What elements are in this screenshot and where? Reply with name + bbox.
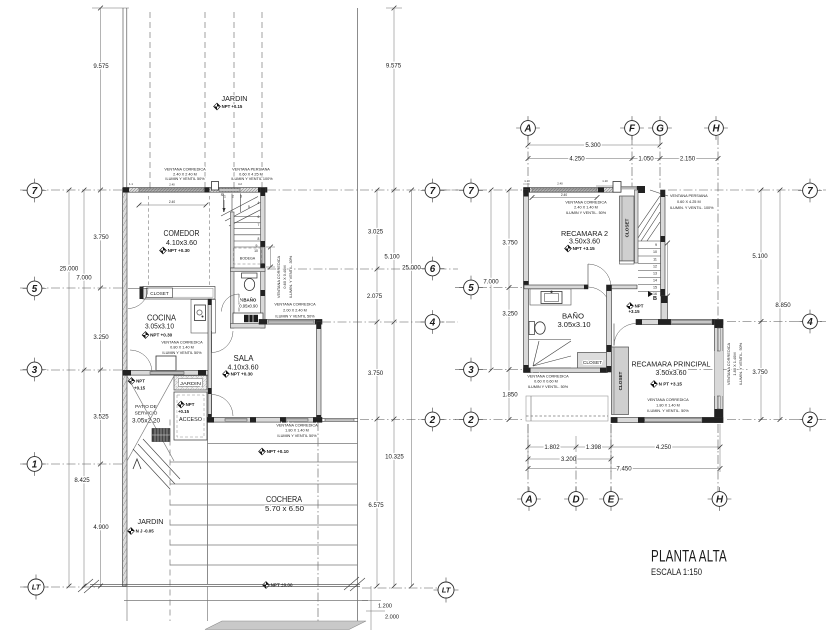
svg-text:3: 3 bbox=[240, 195, 242, 199]
svg-text:4.2: 4.2 bbox=[238, 182, 242, 186]
bottom chain 3 bbox=[528, 468, 720, 470]
sala bottom wall bbox=[207, 418, 322, 423]
svg-text:SALA: SALA bbox=[234, 353, 254, 363]
svg-text:1.80 X 1.40 M: 1.80 X 1.40 M bbox=[285, 429, 309, 433]
svg-text:VENTANA CORREDICA: VENTANA CORREDICA bbox=[276, 255, 281, 298]
bath shower bbox=[529, 339, 571, 341]
svg-text:VENTANA CORREDICA: VENTANA CORREDICA bbox=[565, 201, 607, 205]
svg-text:4.10x3.60: 4.10x3.60 bbox=[228, 363, 259, 372]
comedor dashed edge left bbox=[148, 196, 150, 285]
dashed line x150 bbox=[149, 12, 151, 188]
stair right wall fp bbox=[661, 190, 666, 296]
bottom chain 1 bbox=[528, 446, 720, 448]
grid bubble 2 rp bbox=[459, 419, 483, 421]
rp top wall bbox=[524, 188, 614, 193]
grid bubble LT left bbox=[24, 586, 49, 588]
sala right wall bbox=[317, 322, 322, 422]
cochera divider bbox=[207, 422, 209, 584]
svg-text:NPT +0.30: NPT +0.30 bbox=[231, 372, 254, 377]
comedor dashed edge right bbox=[209, 196, 211, 285]
grid bubble 6 bbox=[421, 268, 445, 270]
svg-text:+0.15: +0.15 bbox=[134, 386, 146, 391]
svg-text:A: A bbox=[524, 495, 532, 506]
svg-text:1.1: 1.1 bbox=[129, 182, 133, 186]
svg-text:1.200: 1.200 bbox=[378, 604, 392, 610]
kitchen door arc bbox=[128, 289, 148, 309]
svg-text:VENTANA CORREDICA: VENTANA CORREDICA bbox=[164, 168, 206, 172]
rp bottom wall bbox=[611, 418, 723, 423]
svg-text:JARDIN: JARDIN bbox=[138, 517, 164, 526]
svg-text:D: D bbox=[572, 495, 579, 506]
svg-text:2.40: 2.40 bbox=[557, 182, 563, 186]
recamara2 bottom wall bbox=[524, 285, 588, 289]
bath closet bbox=[578, 353, 608, 369]
grid row LT bbox=[20, 586, 95, 588]
grid bubble 5 left bbox=[23, 288, 47, 290]
dim 1.200 bbox=[370, 586, 372, 630]
rp top wall step bbox=[613, 182, 621, 193]
svg-text:CLOSET: CLOSET bbox=[583, 360, 602, 366]
top chain 5.300 bbox=[528, 144, 660, 146]
svg-text:ILUMIN. Y VENTIL. 50%: ILUMIN. Y VENTIL. 50% bbox=[738, 342, 743, 385]
svg-text:VENTANA PERSIANA: VENTANA PERSIANA bbox=[670, 194, 708, 198]
persiana leader bbox=[650, 190, 668, 196]
boundary line right bbox=[357, 8, 359, 586]
patio gate mark bbox=[133, 459, 141, 469]
svg-text:NPT +0.15: NPT +0.15 bbox=[222, 104, 243, 109]
grid row 5 right plan bbox=[455, 287, 464, 289]
grid row 1 left bbox=[20, 463, 122, 465]
closet comedor bbox=[143, 287, 215, 300]
npt cochera 0 bbox=[263, 582, 270, 589]
grid col G bbox=[659, 136, 661, 188]
svg-text:9: 9 bbox=[655, 243, 657, 247]
recamara door arc bbox=[614, 324, 636, 346]
grid bubble 2 mid bbox=[421, 419, 445, 421]
svg-text:25.000: 25.000 bbox=[402, 265, 421, 272]
chain 5.100/3.750 rp-right bbox=[760, 190, 762, 420]
svg-text:RECAMARA PRINCIPAL: RECAMARA PRINCIPAL bbox=[632, 360, 711, 369]
svg-text:7: 7 bbox=[258, 223, 260, 227]
stair window dim bbox=[270, 247, 272, 267]
grid col D bbox=[575, 455, 577, 492]
svg-text:N J -0.05: N J -0.05 bbox=[136, 529, 155, 534]
planter jardin strip bbox=[174, 376, 207, 391]
grid bubble A top bbox=[516, 127, 540, 129]
svg-text:PATIO DE: PATIO DE bbox=[135, 404, 157, 410]
half bath door arc bbox=[222, 294, 240, 312]
window persiana strip bbox=[219, 189, 240, 191]
svg-text:NPT: NPT bbox=[186, 402, 195, 407]
svg-text:N PT +3.15: N PT +3.15 bbox=[659, 382, 683, 387]
grid bubble LT right bbox=[434, 589, 459, 591]
svg-text:3.05x3.10: 3.05x3.10 bbox=[558, 322, 591, 329]
chain rows rp-left bbox=[508, 190, 510, 420]
svg-text:8: 8 bbox=[258, 237, 260, 241]
svg-text:2.40: 2.40 bbox=[169, 200, 175, 204]
grid row 2 left bbox=[360, 419, 456, 421]
svg-text:3.05x2.20: 3.05x2.20 bbox=[132, 418, 161, 425]
grid bubble 3 left bbox=[23, 369, 47, 371]
svg-text:NPT +3.15: NPT +3.15 bbox=[573, 246, 596, 251]
sidewalk line bbox=[124, 600, 368, 602]
svg-text:½BAÑO: ½BAÑO bbox=[240, 298, 257, 303]
svg-text:14: 14 bbox=[653, 279, 657, 283]
top wall bbox=[123, 188, 267, 193]
svg-text:4.250: 4.250 bbox=[656, 444, 672, 451]
svg-text:E: E bbox=[608, 495, 615, 506]
svg-text:1: 1 bbox=[32, 460, 37, 471]
half bath walls bbox=[231, 268, 235, 328]
svg-text:0.60 X 0.40M: 0.60 X 0.40M bbox=[282, 265, 287, 288]
svg-text:0.95x0.90: 0.95x0.90 bbox=[239, 304, 258, 309]
svg-text:2.40 X 1.40 M: 2.40 X 1.40 M bbox=[574, 206, 598, 210]
svg-text:JARDIN: JARDIN bbox=[222, 94, 248, 103]
svg-text:3: 3 bbox=[32, 365, 38, 376]
grid bubble 4 mid bbox=[421, 321, 445, 323]
bath door arc bbox=[588, 287, 610, 309]
svg-text:3.200: 3.200 bbox=[561, 456, 577, 463]
sala left wall bbox=[208, 299, 212, 422]
svg-text:VENTANA CORREDICA: VENTANA CORREDICA bbox=[527, 375, 569, 379]
recamara2 window dim bbox=[532, 197, 597, 199]
ramp lines bbox=[133, 449, 170, 489]
svg-text:CLOSET: CLOSET bbox=[625, 218, 630, 237]
svg-text:BODEGA: BODEGA bbox=[240, 257, 256, 261]
svg-text:3.250: 3.250 bbox=[502, 311, 518, 318]
central wall bbox=[607, 285, 612, 372]
sala door arc comedor bbox=[212, 331, 234, 353]
svg-text:6: 6 bbox=[430, 264, 436, 275]
svg-text:2.00 X 2.40 M: 2.00 X 2.40 M bbox=[283, 309, 307, 313]
svg-text:VENTANA CORREDICA: VENTANA CORREDICA bbox=[647, 398, 689, 402]
bath bottom wall bbox=[524, 368, 608, 372]
svg-text:13: 13 bbox=[653, 272, 657, 276]
svg-text:1.850: 1.850 bbox=[502, 392, 518, 399]
svg-text:7: 7 bbox=[430, 186, 436, 197]
svg-text:ILUMIN. Y VENTIL. 100%: ILUMIN. Y VENTIL. 100% bbox=[670, 206, 714, 210]
rp window recamara2 bbox=[532, 188, 597, 191]
acceso box bbox=[174, 392, 207, 440]
chain 8.850 bbox=[779, 190, 781, 420]
kitchen counter bbox=[191, 300, 216, 334]
svg-text:5: 5 bbox=[248, 205, 250, 209]
top chain 4.250/1.050/2.150 bbox=[528, 158, 718, 160]
svg-text:10: 10 bbox=[653, 250, 657, 254]
svg-text:1.802: 1.802 bbox=[544, 444, 560, 451]
grid bubble 7 mid bbox=[421, 190, 445, 192]
svg-text:1: 1 bbox=[224, 195, 226, 199]
grid row 2 right plan bbox=[455, 419, 464, 421]
kitchen bay box bbox=[156, 356, 176, 371]
svg-text:ILUMIN Y VENTIL 50%: ILUMIN Y VENTIL 50% bbox=[275, 315, 315, 319]
svg-text:CLOSET: CLOSET bbox=[618, 371, 623, 390]
svg-text:JARDIN: JARDIN bbox=[180, 381, 201, 386]
lower extensions bbox=[126, 586, 128, 621]
grid row 4 left bbox=[322, 321, 458, 323]
svg-text:10.325: 10.325 bbox=[385, 454, 404, 461]
comedor window dim bbox=[139, 204, 206, 206]
grid col F bbox=[631, 136, 633, 188]
svg-text:2.075: 2.075 bbox=[367, 293, 383, 300]
svg-text:4.10x3.60: 4.10x3.60 bbox=[166, 238, 197, 247]
centreline cochera bbox=[317, 422, 319, 621]
grid row 7 left bbox=[20, 189, 122, 191]
dimension chain 7.000/8.425 bbox=[83, 190, 85, 586]
svg-text:10: 10 bbox=[254, 249, 258, 253]
closet wall strip bbox=[635, 190, 639, 263]
chain 7.000 rp bbox=[490, 190, 492, 370]
svg-text:7.000: 7.000 bbox=[76, 275, 92, 282]
dashed line x205 bbox=[204, 12, 206, 188]
svg-text:RECAMARA 2: RECAMARA 2 bbox=[561, 229, 608, 238]
closet recamara2 bbox=[620, 196, 635, 261]
window comedor bbox=[139, 188, 204, 191]
svg-text:3.250: 3.250 bbox=[93, 334, 109, 341]
svg-text:5.100: 5.100 bbox=[752, 253, 768, 260]
grid row 3 right plan bbox=[455, 369, 464, 371]
grid bubble 7 rp-left bbox=[459, 190, 483, 192]
svg-text:5: 5 bbox=[32, 284, 38, 295]
svg-text:4: 4 bbox=[806, 317, 813, 328]
grid bubble 7 left bbox=[23, 190, 47, 192]
grid bubble E bottom bbox=[599, 498, 623, 500]
svg-text:3.025: 3.025 bbox=[368, 229, 384, 236]
grid row 7 right plan bbox=[440, 189, 464, 191]
svg-text:1.80 X 1.40M: 1.80 X 1.40M bbox=[732, 352, 737, 375]
svg-text:7.000: 7.000 bbox=[483, 279, 499, 286]
grid bubble 7 rp-right bbox=[798, 190, 822, 192]
svg-text:3.750: 3.750 bbox=[502, 240, 518, 247]
sala top window bbox=[268, 321, 314, 323]
svg-text:3.50x3.60: 3.50x3.60 bbox=[569, 239, 600, 246]
svg-text:NPT +0.10: NPT +0.10 bbox=[267, 449, 290, 454]
road strip bbox=[205, 621, 366, 630]
svg-text:VENTANA PERSIANA: VENTANA PERSIANA bbox=[232, 168, 270, 172]
svg-text:5: 5 bbox=[468, 283, 474, 294]
svg-text:3.750: 3.750 bbox=[93, 234, 109, 241]
svg-text:4.250: 4.250 bbox=[569, 156, 585, 163]
kitchen bottom wall bbox=[123, 371, 210, 376]
grid bubble H bottom bbox=[708, 498, 732, 500]
svg-text:4.900: 4.900 bbox=[93, 524, 109, 531]
svg-text:1.10: 1.10 bbox=[602, 179, 608, 183]
dimension chain 25.000 left bbox=[68, 190, 70, 586]
svg-text:VENTANA CORREDICA: VENTANA CORREDICA bbox=[274, 303, 316, 307]
top tick left bbox=[92, 7, 129, 9]
svg-text:ESCALA 1:150: ESCALA 1:150 bbox=[651, 567, 702, 577]
kitchen patio door arc bbox=[130, 350, 152, 372]
svg-text:ILUMIN. Y VENTIL. 50%: ILUMIN. Y VENTIL. 50% bbox=[647, 409, 689, 413]
svg-text:0.80 X 1.40 M: 0.80 X 1.40 M bbox=[170, 346, 194, 350]
svg-text:PLANTA ALTA: PLANTA ALTA bbox=[651, 548, 727, 566]
npt stairs fp bbox=[627, 303, 634, 310]
grid row 4 right plan bbox=[727, 321, 826, 323]
sala door arc acceso bbox=[212, 395, 234, 417]
stair right wall gf bbox=[261, 188, 266, 328]
svg-text:CLOSET: CLOSET bbox=[150, 291, 169, 296]
rp right wall bbox=[715, 320, 724, 423]
stair arrow gf bbox=[223, 200, 225, 212]
stair left wall gf bbox=[231, 212, 235, 268]
svg-text:S: S bbox=[221, 192, 224, 197]
break mark left bbox=[78, 579, 93, 592]
svg-text:12: 12 bbox=[653, 265, 657, 269]
svg-text:9: 9 bbox=[256, 244, 258, 248]
svg-text:1.10: 1.10 bbox=[524, 179, 530, 183]
section mark B bbox=[648, 291, 653, 297]
sala bottom windows bbox=[225, 419, 247, 421]
svg-text:COCHERA: COCHERA bbox=[266, 495, 302, 504]
svg-text:2.000: 2.000 bbox=[385, 615, 399, 621]
break mark right bbox=[344, 577, 359, 590]
svg-text:7: 7 bbox=[32, 186, 38, 197]
svg-text:9.575: 9.575 bbox=[93, 63, 109, 70]
dimension chain x411 25.000 bbox=[411, 190, 413, 586]
dimension chain x377 bbox=[376, 190, 378, 586]
bottom ext lines rp bbox=[527, 424, 529, 472]
svg-text:ILUMIN Y VENTIL. 50%: ILUMIN Y VENTIL. 50% bbox=[566, 211, 607, 215]
stair treads gf bbox=[223, 194, 225, 213]
grid bubble 3 rp bbox=[459, 369, 483, 371]
half bath bottom wall bbox=[231, 324, 266, 329]
cochera paving lines bbox=[208, 443, 358, 445]
stair window dim fp bbox=[667, 243, 669, 296]
terrace outline bbox=[526, 396, 608, 421]
stair window gf bbox=[261, 247, 264, 264]
dashed line x234 bbox=[233, 12, 235, 188]
svg-text:8.425: 8.425 bbox=[74, 477, 90, 484]
grid col E bbox=[610, 424, 612, 492]
top tick right bbox=[386, 7, 402, 9]
svg-text:ILUMIN Y VENTIL 50%: ILUMIN Y VENTIL 50% bbox=[277, 434, 317, 438]
acceso labels bbox=[178, 401, 185, 408]
svg-text:ILUMIN Y VENTIL. 50%: ILUMIN Y VENTIL. 50% bbox=[528, 385, 569, 389]
svg-text:H: H bbox=[712, 124, 720, 135]
svg-text:3.05x3.10: 3.05x3.10 bbox=[145, 322, 174, 331]
svg-text:3.525: 3.525 bbox=[93, 414, 109, 421]
svg-text:4: 4 bbox=[429, 318, 436, 329]
svg-text:8.850: 8.850 bbox=[775, 302, 791, 309]
boundary right lower bbox=[357, 586, 359, 621]
svg-text:VENTANA CORREDICA: VENTANA CORREDICA bbox=[161, 341, 203, 345]
svg-text:2: 2 bbox=[232, 195, 234, 199]
svg-text:0.60 X 4.25 M: 0.60 X 4.25 M bbox=[239, 172, 263, 176]
recamara2 door arc bbox=[588, 264, 611, 287]
svg-text:0.60 X 4.25 M: 0.60 X 4.25 M bbox=[677, 200, 701, 204]
svg-text:LT: LT bbox=[32, 583, 42, 592]
svg-text:0.60 X 0.60 M: 0.60 X 0.60 M bbox=[534, 380, 558, 384]
svg-text:6.575: 6.575 bbox=[368, 502, 384, 509]
grid bubble D bottom bbox=[564, 498, 588, 500]
svg-text:7: 7 bbox=[468, 186, 474, 197]
svg-text:G: G bbox=[656, 124, 664, 135]
closet recamara ppal bbox=[612, 347, 629, 415]
svg-text:+3.15: +3.15 bbox=[628, 309, 640, 314]
rp window recamara top bbox=[671, 321, 712, 323]
svg-text:7.450: 7.450 bbox=[616, 466, 632, 473]
rp left wall bbox=[524, 190, 529, 372]
grid row 6 bbox=[267, 268, 458, 270]
rp bottom window bbox=[645, 419, 703, 421]
toilet gf bbox=[242, 273, 258, 278]
svg-text:ILUMIN Y VENTIL 50%: ILUMIN Y VENTIL 50% bbox=[165, 177, 205, 181]
grid col A bbox=[527, 136, 529, 188]
dimension chain left rows bbox=[100, 8, 102, 586]
svg-text:25.000: 25.000 bbox=[60, 266, 79, 273]
grid row 5 left bbox=[20, 287, 122, 289]
dimension chain x394 bbox=[393, 8, 395, 586]
grid row 3 left bbox=[20, 369, 122, 371]
svg-text:2: 2 bbox=[467, 415, 474, 426]
svg-text:5.300: 5.300 bbox=[585, 142, 601, 149]
svg-text:COMEDOR: COMEDOR bbox=[164, 228, 200, 238]
svg-text:2: 2 bbox=[806, 415, 813, 426]
grid bubble 4 rp bbox=[798, 321, 822, 323]
svg-text:4: 4 bbox=[258, 201, 260, 205]
bottom boundary wall bbox=[90, 583, 360, 585]
grid bubble 5 rp bbox=[459, 287, 483, 289]
svg-text:2.40 X 2.40 M: 2.40 X 2.40 M bbox=[173, 172, 197, 176]
svg-text:15: 15 bbox=[653, 286, 657, 290]
grid bubble F top bbox=[620, 127, 644, 129]
svg-text:3.750: 3.750 bbox=[368, 370, 384, 377]
svg-text:BAÑO: BAÑO bbox=[562, 312, 584, 321]
stair treads fp bbox=[638, 240, 661, 242]
dashed garden edge bbox=[169, 420, 171, 622]
svg-text:5.100: 5.100 bbox=[384, 254, 400, 261]
svg-text:LT: LT bbox=[442, 586, 452, 595]
svg-text:1.80 X 1.40 M: 1.80 X 1.40 M bbox=[656, 404, 680, 408]
boiler closet bbox=[233, 313, 263, 324]
bodega dashed box bbox=[234, 248, 262, 264]
svg-text:B: B bbox=[653, 296, 657, 302]
cochera front low wall bbox=[322, 418, 358, 420]
patio npt bbox=[128, 378, 135, 385]
chimney bump bbox=[212, 182, 219, 191]
svg-text:5.70 x 6.50: 5.70 x 6.50 bbox=[265, 504, 304, 513]
grid col H bbox=[717, 136, 719, 319]
svg-text:ILUMIN Y VENTIL 100%: ILUMIN Y VENTIL 100% bbox=[231, 177, 273, 181]
svg-text:11: 11 bbox=[653, 258, 657, 262]
svg-text:ILUMIN Y VENTIL 50%: ILUMIN Y VENTIL 50% bbox=[162, 351, 202, 355]
svg-text:1.050: 1.050 bbox=[638, 156, 654, 163]
svg-text:A: A bbox=[523, 124, 531, 135]
grid bubble 2 rp-right bbox=[798, 419, 822, 421]
svg-text:NPT: NPT bbox=[136, 379, 145, 384]
boundary wall left bbox=[122, 8, 124, 188]
grid bubble 1 left bbox=[23, 463, 47, 465]
grid bubble H top bbox=[704, 127, 728, 129]
svg-text:ILUMIN. Y VENTIL. 30%: ILUMIN. Y VENTIL. 30% bbox=[288, 255, 293, 298]
bath sink counter bbox=[530, 289, 571, 305]
bath toilet bbox=[529, 322, 535, 335]
svg-text:VENTANA CORREDICA: VENTANA CORREDICA bbox=[726, 342, 731, 385]
patio diagonals bbox=[127, 376, 174, 461]
svg-text:2: 2 bbox=[429, 415, 436, 426]
bottom chain 2 bbox=[528, 458, 611, 460]
svg-text:6: 6 bbox=[258, 215, 260, 219]
svg-text:2.40: 2.40 bbox=[169, 183, 175, 187]
washer bbox=[152, 429, 170, 442]
svg-text:NPT: NPT bbox=[635, 304, 644, 309]
kitchen sink bbox=[195, 305, 206, 321]
svg-text:ACCESO: ACCESO bbox=[179, 417, 203, 423]
sala top wall bbox=[259, 320, 322, 325]
rp right windows bbox=[717, 328, 720, 351]
grid bubble G top bbox=[648, 127, 672, 129]
rp top wall recamara bbox=[636, 320, 723, 325]
